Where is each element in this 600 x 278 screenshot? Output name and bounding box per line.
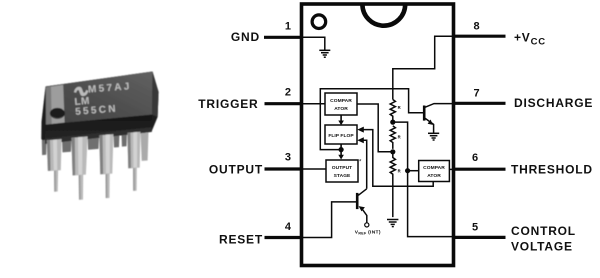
transistor Q2 reset: base bar [356, 193, 359, 209]
pin D [127, 132, 140, 191]
wire comparator2 output to flipflop [362, 130, 433, 187]
arrow comparator1 to flipflop [338, 115, 344, 125]
chip back pins in gaps [42, 131, 149, 161]
svg-text:TRIGGER: TRIGGER [198, 97, 258, 111]
chip front pins [47, 132, 141, 200]
wire divider tap 2/3Vcc to comparator 2 and pin 5 [393, 122, 452, 237]
chip front face [45, 115, 152, 144]
arrowhead Q1 emitter [428, 120, 433, 125]
chip body top face [46, 72, 153, 125]
wire pin2 to comparator 1 [303, 103, 325, 105]
svg-text:R: R [398, 105, 401, 110]
arrowhead Q2 into flipflop [357, 137, 364, 143]
wire pin8 Vcc feed to divider [393, 36, 452, 99]
svg-text:2: 2 [285, 87, 291, 99]
pin A [47, 139, 62, 192]
chip pin1 dimple [50, 108, 65, 119]
transistor Q1 emitter [425, 118, 433, 133]
internal block diagram [303, 36, 452, 237]
chip top face right shading [152, 72, 158, 118]
chip body silhouette [41, 72, 158, 144]
svg-text:COMPAR: COMPAR [423, 165, 445, 171]
pin 4 stub [265, 236, 303, 239]
chip front face lower sheen [45, 127, 152, 144]
resistor R2 [390, 126, 395, 149]
svg-text:VOLTAGE: VOLTAGE [511, 240, 573, 254]
chip markings [73, 81, 134, 118]
arrowhead comparator2 into flipflop [357, 127, 364, 133]
svg-text:ATOR: ATOR [334, 106, 348, 112]
svg-text:3: 3 [285, 152, 291, 164]
svg-text:8: 8 [474, 21, 480, 33]
ground symbol (Q1 emitter) [428, 133, 439, 140]
resistor R3 [390, 154, 395, 217]
svg-text:1: 1 [285, 21, 291, 33]
svg-text:CONTROL: CONTROL [511, 224, 576, 238]
svg-text:COMPAR: COMPAR [330, 98, 352, 104]
svg-text:7: 7 [474, 88, 480, 100]
chip left end stripe [46, 85, 64, 125]
junction dot comparator2 input [405, 168, 410, 173]
IC body outline [302, 4, 454, 266]
pin 3 stub [265, 167, 303, 170]
wire Q1 collector to pin 7 [425, 104, 452, 108]
pin C [99, 134, 113, 198]
pin B [71, 136, 87, 199]
junction dot divider tap2 [390, 149, 395, 154]
pin 8 stub [453, 35, 506, 38]
Vref open terminal [365, 223, 369, 227]
transistor Q1 discharge: base bar [423, 106, 426, 121]
svg-text:THRESHOLD: THRESHOLD [511, 163, 593, 177]
arrowhead Q2 emitter (PNP into base) [359, 206, 365, 211]
comparator 2 box [419, 161, 450, 182]
ground symbol (divider) [387, 220, 398, 227]
index notch [362, 4, 405, 25]
svg-text:FLIP FLOP: FLIP FLOP [328, 133, 354, 139]
svg-text:STAGE: STAGE [334, 173, 351, 179]
pin 1 index circle [312, 15, 326, 29]
pin 6 stub [453, 168, 506, 171]
transistor Q2 emitter [362, 209, 367, 223]
flip flop box [325, 125, 357, 144]
comparator 1 box [325, 93, 357, 115]
svg-text:5: 5 [472, 222, 478, 234]
junction dot flipflop output [339, 147, 344, 152]
pin 7 stub [453, 102, 506, 105]
pin 1 stub [264, 36, 302, 39]
wire pin1 GND internal [303, 37, 325, 50]
svg-text:R: R [398, 135, 401, 140]
svg-text:DISCHARGE: DISCHARGE [514, 96, 593, 110]
junction dot divider tap1 [390, 120, 395, 125]
transistor Q2 collector [358, 189, 366, 196]
svg-text:GND: GND [231, 30, 260, 44]
svg-text:4: 4 [285, 221, 292, 233]
pin 5 stub [453, 236, 506, 239]
wire comparator1 output to divider tap 1/3Vcc [357, 104, 393, 152]
NS logo [73, 86, 88, 97]
svg-text:6: 6 [472, 152, 478, 164]
wire Q2 collector to flipflop [362, 140, 367, 189]
chip left stripe inner shade [46, 87, 52, 125]
resistor R1 [390, 100, 395, 121]
wire comparator2 to pin 6 [449, 168, 452, 170]
ground symbol (pin 1) [319, 50, 330, 57]
wire pin4 reset to Q2 base [303, 202, 356, 238]
output stage box [326, 160, 362, 183]
arrow flipflop to output stage [338, 144, 344, 160]
svg-text:RESET: RESET [219, 233, 263, 247]
svg-text:ATOR: ATOR [427, 173, 441, 179]
svg-text:OUTPUT: OUTPUT [209, 162, 263, 176]
wire tap to comparator 2 input [408, 170, 419, 172]
arrows [338, 115, 433, 211]
svg-text:OUTPUT: OUTPUT [332, 165, 352, 171]
svg-text:R: R [398, 169, 401, 174]
pin 2 stub [265, 102, 303, 105]
wire flipflop output over-the-top to Q1 base [320, 89, 423, 150]
wire pin3 to output stage [303, 168, 326, 170]
